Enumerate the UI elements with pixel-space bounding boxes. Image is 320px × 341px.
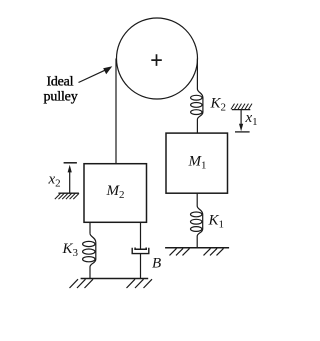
wire: M1 to K1	[196, 193, 198, 206]
wire: M2 to K3	[89, 222, 91, 233]
spring K1	[191, 206, 203, 248]
ground under K3 and B	[70, 279, 153, 289]
svg-text:x2: x2	[48, 171, 61, 189]
svg-text:K1: K1	[208, 212, 225, 230]
svg-text:M1: M1	[188, 153, 207, 171]
pulley center mark	[151, 54, 162, 66]
x2 arrow	[68, 165, 72, 193]
svg-text:K3: K3	[62, 241, 79, 259]
arrow to pulley	[79, 66, 113, 82]
mass M2	[84, 164, 147, 223]
ground under K1	[165, 248, 229, 256]
svg-text:M2: M2	[106, 183, 125, 201]
node: x2 reference hatch	[55, 193, 79, 199]
damper B cylinder	[132, 248, 149, 254]
wire: damper to ground	[140, 254, 142, 279]
x2 reference bar	[64, 162, 77, 164]
svg-text:B: B	[152, 256, 161, 272]
spring K3	[83, 233, 96, 278]
wire: left rope pulley to M2	[115, 59, 117, 164]
svg-text:x1: x1	[245, 110, 258, 128]
mass M1	[166, 133, 228, 193]
damper B piston	[134, 248, 147, 250]
spring K2	[191, 89, 203, 133]
node: x1 reference hatch	[231, 104, 252, 110]
wire: right rope pulley to K2	[196, 59, 198, 90]
svg-text:K2: K2	[210, 96, 227, 114]
wire: M2 to damper	[140, 222, 142, 249]
svg-text:pulley: pulley	[44, 90, 78, 105]
pulley wheel	[117, 18, 198, 99]
svg-text:Ideal: Ideal	[47, 75, 74, 90]
x1 arrow	[235, 110, 250, 132]
